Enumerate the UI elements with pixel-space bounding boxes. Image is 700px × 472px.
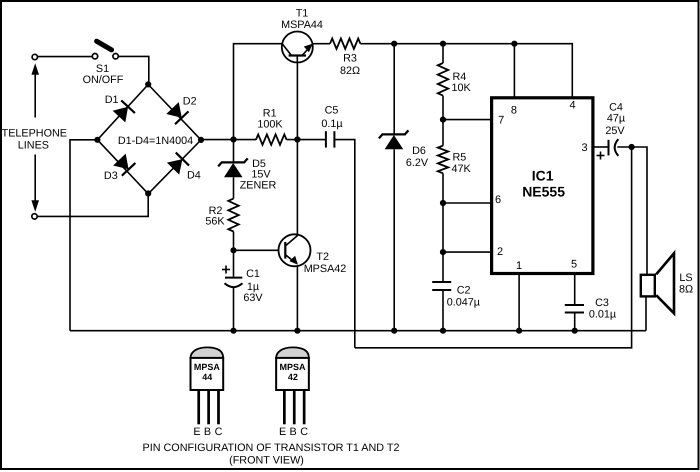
IC U1 NE555 box <box>492 98 593 274</box>
svg-text:E: E <box>279 426 286 438</box>
wire: pin 6 <box>443 202 490 204</box>
zener diode D6 <box>379 44 409 331</box>
svg-text:C1: C1 <box>246 268 260 280</box>
wire: C1 to ground rail <box>233 288 235 331</box>
wire: switch to bridge top <box>118 56 149 84</box>
wire: switch left lead <box>38 56 93 58</box>
wire: pin 1 to ground rail <box>518 275 520 331</box>
junction: C1 ground <box>230 328 236 334</box>
svg-text:TELEPHONE: TELEPHONE <box>2 127 67 139</box>
svg-text:25V: 25V <box>605 125 625 137</box>
svg-text:C: C <box>215 426 223 438</box>
svg-text:5: 5 <box>571 259 577 271</box>
switch S1 <box>92 41 118 59</box>
terminal: telephone line upper <box>32 54 37 59</box>
wire: lower terminal to bridge bottom <box>37 194 148 217</box>
bridge edge: left to top <box>97 85 148 140</box>
svg-text:47K: 47K <box>452 163 472 175</box>
wire: C2 to ground rail <box>442 290 444 331</box>
ground rail <box>70 330 646 332</box>
svg-text:R1: R1 <box>263 107 277 119</box>
svg-text:D1-D4=1N4004: D1-D4=1N4004 <box>118 135 193 147</box>
capacitor C5 <box>326 131 335 147</box>
svg-text:ON/OFF: ON/OFF <box>83 74 124 86</box>
junction: pin1 ground <box>516 328 522 334</box>
svg-text:56K: 56K <box>205 215 225 227</box>
loudspeaker LS <box>641 253 674 313</box>
wire: feedback rail <box>355 147 632 348</box>
wire: dc+ node row <box>201 139 256 141</box>
capacitor C1 plus sign <box>222 266 230 274</box>
junction: bridge top vertex <box>145 81 151 87</box>
svg-text:0.1µ: 0.1µ <box>321 118 342 130</box>
svg-text:LS: LS <box>679 272 692 284</box>
svg-text:LINES: LINES <box>18 140 49 152</box>
svg-text:D2: D2 <box>183 96 197 108</box>
wire: pin 2 <box>443 251 490 253</box>
telephone lines arrow upper <box>31 63 39 117</box>
wire: pin 5 to C3 <box>574 275 576 305</box>
svg-text:7: 7 <box>498 114 504 126</box>
wire: pin 7 <box>443 119 490 121</box>
svg-text:B: B <box>290 426 297 438</box>
svg-text:R3: R3 <box>343 52 357 64</box>
junction: pin7 node <box>440 117 446 123</box>
wire: pin2 node to C2 <box>442 252 444 282</box>
svg-text:MSPA44: MSPA44 <box>281 19 323 31</box>
junction: D6 ground <box>391 328 397 334</box>
wire: top rail <box>360 44 572 97</box>
wire: pin 8 stub <box>513 44 515 97</box>
resistor R5 <box>438 146 448 174</box>
wire: C4 to speaker <box>617 147 647 274</box>
svg-text:IC1: IC1 <box>532 168 554 184</box>
junction: T2 emitter ground <box>294 328 300 334</box>
wire: T1 emitter / T2 collector column <box>296 63 298 235</box>
svg-text:MPSA42: MPSA42 <box>304 263 347 275</box>
svg-text:6: 6 <box>495 194 501 206</box>
wire: C3 to ground rail <box>574 313 576 331</box>
resistor R1 <box>256 134 287 144</box>
svg-text:47µ: 47µ <box>607 113 625 125</box>
transistor T1 <box>282 32 313 63</box>
svg-text:1: 1 <box>516 260 522 272</box>
svg-text:C2: C2 <box>457 284 471 296</box>
svg-text:B: B <box>204 426 211 438</box>
svg-text:8Ω: 8Ω <box>679 284 693 296</box>
junction: bridge left vertex <box>94 137 100 143</box>
svg-text:ZENER: ZENER <box>240 179 277 191</box>
diode D3 <box>113 153 136 176</box>
terminal: telephone line lower <box>32 214 37 219</box>
svg-text:PIN CONFIGURATION OF TRANSISTO: PIN CONFIGURATION OF TRANSISTOR T1 AND T… <box>143 442 400 454</box>
junction: R1/C5/T1 node <box>294 136 300 142</box>
svg-text:2: 2 <box>497 246 503 258</box>
wire: speaker to ground rail <box>645 297 647 331</box>
diode D4 <box>166 153 189 176</box>
diode D1 <box>112 100 135 122</box>
svg-text:MPSA: MPSA <box>280 362 307 372</box>
svg-text:42: 42 <box>288 372 298 382</box>
wire: T2 base lead <box>234 249 279 251</box>
svg-text:82Ω: 82Ω <box>340 65 360 77</box>
svg-text:D1: D1 <box>105 94 119 106</box>
svg-text:100K: 100K <box>257 119 283 131</box>
wire: R4 top lead <box>442 44 444 63</box>
wire: bridge left vertex to ground rail <box>70 140 97 331</box>
svg-text:T1: T1 <box>296 7 309 19</box>
resistor R2 <box>228 199 238 232</box>
capacitor C1 <box>225 278 243 288</box>
zener diode D5 <box>218 140 248 199</box>
svg-text:10K: 10K <box>452 82 472 94</box>
svg-text:R5: R5 <box>453 151 467 163</box>
wire: R5 to pin6 node <box>442 173 444 252</box>
capacitor C2 <box>432 282 451 290</box>
junction: pin6 node <box>440 200 446 206</box>
resistor R3 <box>330 39 360 49</box>
svg-text:D6: D6 <box>412 145 426 157</box>
bridge edge: top to right <box>148 85 201 140</box>
diode D2 <box>166 102 189 125</box>
wire: R2 to node <box>233 232 235 277</box>
svg-text:0.047µ: 0.047µ <box>447 297 480 309</box>
junction: pin2 node <box>440 249 446 255</box>
junction: D6 top <box>391 41 397 47</box>
capacitor C4 <box>609 139 619 156</box>
svg-text:E: E <box>193 426 200 438</box>
junction: C2 ground <box>440 328 446 334</box>
svg-text:3: 3 <box>581 142 587 154</box>
junction: bridge bottom vertex <box>145 190 151 196</box>
svg-text:63V: 63V <box>243 292 263 304</box>
svg-text:MPSA: MPSA <box>194 362 221 372</box>
wire: R4 to pin7 node <box>442 96 444 146</box>
capacitor C4 plus sign <box>597 152 605 160</box>
resistor R4 <box>438 63 448 96</box>
svg-text:D4: D4 <box>187 169 201 181</box>
wire: node to T1 base column <box>234 44 283 140</box>
wire: T1 to R3 <box>312 43 330 45</box>
svg-text:C5: C5 <box>325 104 339 116</box>
junction: R1/D5 node <box>230 136 236 142</box>
junction: R2/C1/T2 base <box>230 247 236 253</box>
svg-text:T2: T2 <box>316 251 329 263</box>
wire: C5 to feedback drop <box>334 140 354 348</box>
transistor T2 <box>279 234 311 266</box>
package drawing MPSA42 <box>276 347 309 438</box>
capacitor C3 <box>565 305 584 313</box>
svg-text:6.2V: 6.2V <box>406 157 429 169</box>
svg-text:8: 8 <box>511 104 517 116</box>
junction: R4 top <box>440 41 446 47</box>
svg-text:44: 44 <box>202 372 212 382</box>
bridge edge: left to bottom <box>97 140 148 194</box>
package drawing MPSA44 <box>191 347 224 438</box>
junction: pin8 top <box>511 41 517 47</box>
svg-text:(FRONT VIEW): (FRONT VIEW) <box>229 454 304 466</box>
wire: T2 emitter to ground rail <box>296 266 298 331</box>
svg-text:0.01µ: 0.01µ <box>589 309 616 321</box>
junction: bridge right vertex <box>198 137 204 143</box>
svg-text:D3: D3 <box>104 170 118 182</box>
telephone lines arrow lower <box>31 155 39 212</box>
svg-text:NE555: NE555 <box>522 183 565 199</box>
junction: C3 ground <box>572 328 578 334</box>
svg-text:C: C <box>300 426 308 438</box>
svg-text:C3: C3 <box>595 297 609 309</box>
bridge edge: bottom to right <box>148 140 201 194</box>
junction: C4 output node <box>629 144 635 150</box>
wire: R1 to C5 <box>287 139 326 141</box>
svg-text:4: 4 <box>570 100 576 112</box>
wire: pin 3 to C4 <box>594 146 609 148</box>
